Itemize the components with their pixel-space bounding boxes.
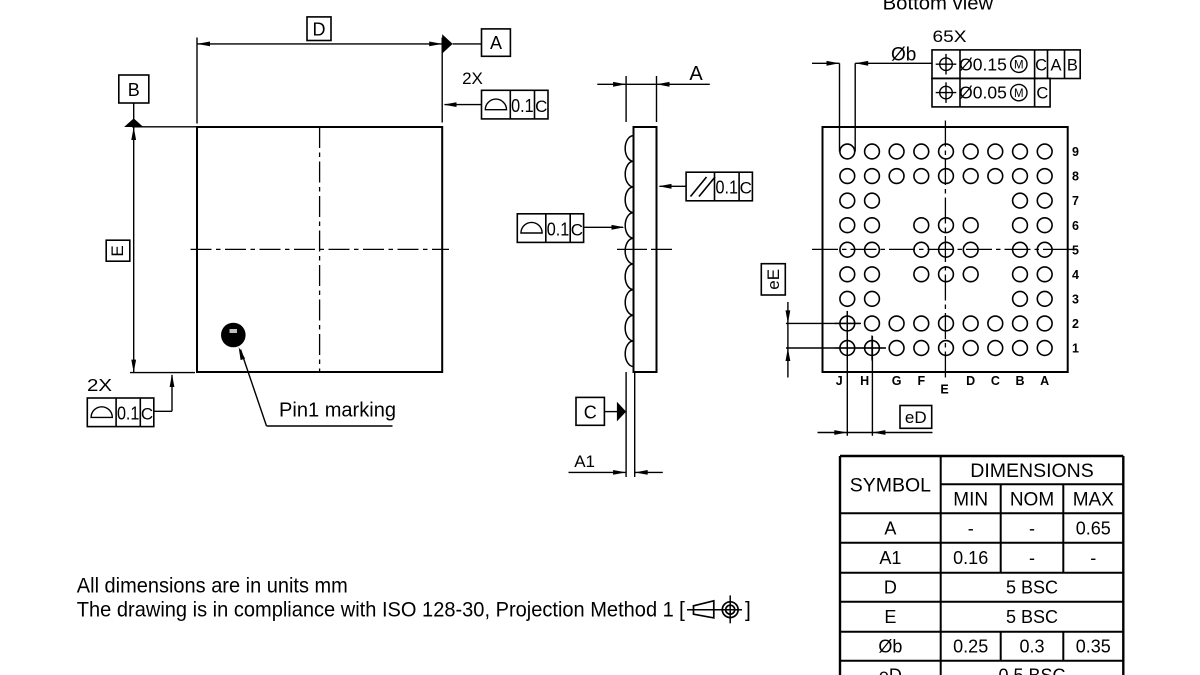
svg-text:H: H bbox=[860, 374, 869, 388]
dimension A arrow left bbox=[613, 82, 626, 87]
svg-text:2X: 2X bbox=[462, 69, 483, 88]
svg-text:0.35: 0.35 bbox=[1076, 637, 1111, 657]
leader side profile bbox=[584, 226, 623, 228]
position symbol row1 bbox=[940, 58, 953, 71]
leader top right frame bbox=[445, 104, 482, 106]
pin1 leader arrow bbox=[239, 347, 246, 360]
svg-text:0.1: 0.1 bbox=[117, 404, 140, 424]
svg-text:Øb: Øb bbox=[891, 45, 916, 66]
datum B box bbox=[119, 75, 149, 103]
eD dim line right bbox=[872, 432, 932, 434]
svg-text:A1: A1 bbox=[574, 452, 595, 471]
svg-text:C: C bbox=[1035, 56, 1047, 74]
svg-text:0.1: 0.1 bbox=[511, 96, 534, 116]
svg-text:[: [ bbox=[679, 599, 685, 622]
svg-text:B: B bbox=[128, 80, 140, 100]
row 5 center line tick bbox=[1068, 248, 1077, 250]
side view body outline bbox=[634, 127, 657, 372]
dimension E line bbox=[133, 127, 135, 373]
dimension A line right tail bbox=[657, 83, 710, 85]
svg-text:SYMBOL: SYMBOL bbox=[850, 475, 931, 497]
svg-text:0.25: 0.25 bbox=[953, 637, 988, 657]
dimension A extension left bbox=[625, 76, 627, 122]
datum A leader bbox=[453, 43, 482, 45]
eD dim line middle bbox=[847, 432, 872, 434]
svg-text:4: 4 bbox=[1072, 268, 1079, 282]
feature control frame parallelism bbox=[686, 172, 752, 201]
svg-text:C: C bbox=[535, 97, 547, 116]
side view solder balls bbox=[625, 136, 633, 162]
svg-text:C: C bbox=[740, 179, 752, 198]
svg-text:Pin1 marking: Pin1 marking bbox=[279, 400, 396, 422]
svg-text:Ø0.15: Ø0.15 bbox=[959, 54, 1007, 74]
eE extension line row1 bbox=[786, 347, 886, 349]
svg-text:0.65: 0.65 bbox=[1076, 518, 1111, 538]
crosshair marks on balls J2 J1 H1 bbox=[835, 322, 860, 324]
profile symbol side bbox=[521, 222, 542, 233]
svg-text:eE: eE bbox=[764, 269, 783, 290]
svg-text:0.1: 0.1 bbox=[547, 219, 570, 239]
side view center line bbox=[617, 248, 672, 250]
dimension A1 arrow right bbox=[635, 470, 648, 475]
svg-text:1: 1 bbox=[1072, 342, 1079, 356]
svg-text:C: C bbox=[584, 402, 597, 422]
svg-text:E: E bbox=[884, 607, 896, 627]
svg-text:A: A bbox=[1050, 56, 1061, 74]
datum B triangle bbox=[124, 118, 143, 127]
svg-text:5: 5 bbox=[1072, 243, 1079, 257]
dimension D arrow right bbox=[429, 42, 442, 47]
dimension A extension right bbox=[656, 76, 658, 122]
top edge extension to datum B bbox=[132, 126, 197, 128]
svg-text:7: 7 bbox=[1072, 194, 1079, 208]
svg-text:NOM: NOM bbox=[1010, 490, 1054, 511]
svg-text:C: C bbox=[1036, 85, 1048, 103]
body edge extension below bbox=[634, 372, 636, 477]
projection symbol circles bbox=[722, 602, 738, 618]
svg-text:-: - bbox=[1029, 548, 1035, 568]
profile symbol top right bbox=[485, 99, 506, 110]
svg-text:C: C bbox=[141, 405, 153, 424]
eE dim line upper bbox=[787, 302, 789, 323]
bottom view vertical center line bbox=[944, 121, 946, 380]
dimension E arrow bottom bbox=[131, 360, 136, 373]
svg-text:0.1: 0.1 bbox=[716, 178, 739, 198]
bottom view package outline bbox=[823, 127, 1068, 372]
projection symbol cone bbox=[694, 601, 714, 618]
svg-text:D: D bbox=[966, 374, 975, 388]
svg-text:G: G bbox=[892, 374, 902, 388]
feature control frame top right bbox=[482, 90, 549, 119]
dimension A line left bbox=[597, 83, 656, 85]
dimension A1 line left bbox=[569, 471, 627, 473]
dimension A1 line right bbox=[635, 471, 663, 473]
svg-text:MIN: MIN bbox=[953, 490, 988, 511]
svg-text:5 BSC: 5 BSC bbox=[1006, 578, 1058, 598]
svg-text:C: C bbox=[571, 220, 583, 239]
dimension E label box bbox=[106, 240, 130, 261]
datum C leader bbox=[604, 411, 618, 413]
svg-text:F: F bbox=[918, 374, 926, 388]
svg-text:A: A bbox=[490, 33, 502, 53]
svg-text:]: ] bbox=[745, 599, 751, 622]
svg-text:eD: eD bbox=[879, 666, 902, 675]
dimension D extension line left bbox=[196, 38, 198, 124]
dimension E arrow top bbox=[131, 127, 136, 140]
bottom view solder balls 65x bbox=[840, 144, 855, 159]
dimension D label box bbox=[307, 17, 331, 41]
dimension D arrow left bbox=[197, 42, 210, 47]
top view horizontal center line bbox=[191, 248, 450, 250]
svg-text:A: A bbox=[689, 63, 703, 85]
position tolerance frame row2 bbox=[932, 78, 1050, 107]
svg-text:E: E bbox=[108, 245, 127, 256]
datum A triangle bbox=[442, 34, 452, 53]
svg-text:The drawing is in compliance w: The drawing is in compliance with ISO 12… bbox=[77, 599, 674, 622]
eE dim line lower bbox=[787, 348, 789, 378]
diameter b leader bbox=[855, 62, 932, 64]
dimension A arrow right bbox=[657, 82, 670, 87]
diameter b dim line left bbox=[812, 62, 840, 64]
svg-text:M: M bbox=[1014, 88, 1024, 100]
column H extension line bbox=[871, 336, 873, 436]
top view package outline bbox=[197, 127, 442, 372]
svg-text:8: 8 bbox=[1072, 170, 1079, 184]
top view vertical center line bbox=[319, 127, 321, 372]
svg-text:3: 3 bbox=[1072, 292, 1079, 306]
svg-text:MAX: MAX bbox=[1073, 490, 1115, 511]
svg-text:E: E bbox=[940, 383, 948, 397]
dimension A1 arrow left bbox=[613, 470, 626, 475]
diameter b tangent lines bbox=[839, 63, 841, 151]
bottom edge extension line bbox=[130, 372, 195, 374]
pin1 marking dot bbox=[221, 323, 246, 348]
parallelism symbol bbox=[691, 177, 707, 197]
datum C box bbox=[576, 397, 604, 425]
svg-text:0.16: 0.16 bbox=[953, 548, 988, 568]
svg-text:0.5 BSC: 0.5 BSC bbox=[998, 666, 1065, 675]
svg-text:0.3: 0.3 bbox=[1019, 637, 1044, 657]
projection symbol center line v bbox=[729, 595, 731, 623]
svg-text:DIMENSIONS: DIMENSIONS bbox=[970, 460, 1094, 482]
svg-text:6: 6 bbox=[1072, 219, 1079, 233]
leader parallelism bbox=[660, 185, 687, 187]
profile symbol bottom left bbox=[91, 407, 112, 418]
datum B leader bbox=[133, 103, 135, 119]
svg-text:B: B bbox=[1016, 374, 1025, 388]
datum A box bbox=[482, 29, 511, 56]
position symbol row2 bbox=[940, 86, 953, 99]
svg-text:Bottom view: Bottom view bbox=[883, 0, 994, 14]
pin1 leader line bbox=[241, 350, 267, 427]
eD dim line left bbox=[818, 432, 848, 434]
svg-text:2X: 2X bbox=[87, 375, 112, 395]
svg-text:eD: eD bbox=[905, 408, 927, 427]
dimension table grid bbox=[840, 455, 1123, 457]
svg-text:2: 2 bbox=[1072, 317, 1079, 331]
leader bottom left frame bbox=[154, 410, 172, 412]
feature control frame bottom left bbox=[87, 398, 154, 427]
svg-text:D: D bbox=[884, 578, 897, 598]
svg-text:A: A bbox=[1040, 374, 1049, 388]
svg-text:C: C bbox=[991, 374, 1000, 388]
dimension D line bbox=[197, 43, 442, 45]
modifier M row1 bbox=[1011, 56, 1027, 72]
svg-text:J: J bbox=[836, 374, 843, 388]
position tolerance frame row1 bbox=[932, 50, 1080, 79]
svg-text:65X: 65X bbox=[933, 28, 967, 46]
eE label box bbox=[761, 264, 785, 295]
svg-text:Ø0.05: Ø0.05 bbox=[959, 83, 1007, 103]
seating plane extension below bbox=[625, 372, 627, 477]
svg-text:B: B bbox=[1067, 56, 1078, 74]
column J extension line bbox=[846, 311, 848, 436]
svg-text:A1: A1 bbox=[879, 548, 901, 568]
eD label box bbox=[900, 406, 932, 429]
dimension D extension line right bbox=[441, 38, 443, 123]
svg-text:5 BSC: 5 BSC bbox=[1006, 607, 1058, 627]
svg-text:-: - bbox=[968, 518, 974, 538]
bottom view horizontal center line bbox=[812, 248, 1077, 250]
projection symbol center line h bbox=[687, 609, 742, 611]
svg-text:-: - bbox=[1029, 518, 1035, 538]
svg-text:All dimensions are in units mm: All dimensions are in units mm bbox=[77, 574, 348, 597]
svg-text:A: A bbox=[884, 518, 896, 538]
svg-text:Øb: Øb bbox=[878, 637, 902, 657]
svg-text:M: M bbox=[1014, 59, 1024, 71]
eE extension line row2 bbox=[786, 322, 861, 324]
feature control frame side profile bbox=[517, 214, 583, 243]
svg-text:9: 9 bbox=[1072, 145, 1079, 159]
svg-text:D: D bbox=[313, 19, 326, 39]
datum C triangle bbox=[617, 402, 626, 422]
svg-text:-: - bbox=[1090, 548, 1096, 568]
modifier M row2 bbox=[1011, 84, 1027, 100]
eE dim line middle bbox=[787, 323, 789, 348]
